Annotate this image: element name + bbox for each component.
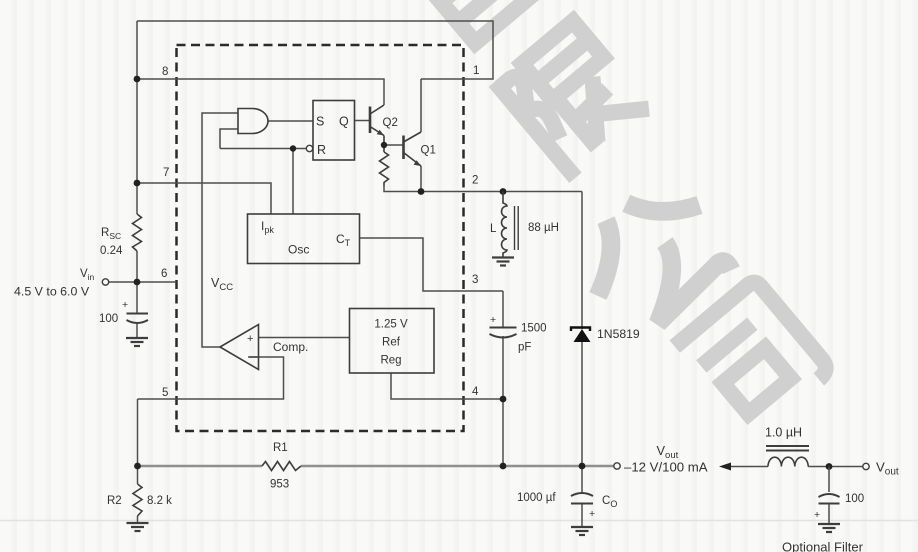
svg-text:R2: R2 [107,495,122,507]
watermark char 司 [675,279,831,436]
ground (R2) [127,523,149,531]
ground (L) [492,258,514,266]
svg-text:6: 6 [161,268,167,280]
svg-text:0.24: 0.24 [100,245,123,257]
transistor Q1 [404,132,422,166]
reference regulator box [350,309,435,374]
wire: top loop to pin 1 [137,21,493,79]
svg-text:8.2 k: 8.2 k [147,495,172,507]
wire: pin5 node down to feedback divider [137,399,139,466]
svg-text:1000 µf: 1000 µf [517,492,556,504]
svg-text:100: 100 [99,313,118,325]
node: pin4 rail junction [500,463,507,470]
svg-text:1500: 1500 [521,323,547,335]
resistor R2 8.2k [133,484,142,516]
svg-text:R: R [317,143,326,157]
node: pin8 junction [134,76,141,83]
svg-text:953: 953 [270,479,289,491]
svg-text:Ipk: Ipk [261,219,274,235]
wire: bottom output rail [138,465,614,467]
svg-text:L: L [490,223,497,235]
terminal Vout (filter) [863,463,869,469]
svg-text:VCC: VCC [211,276,233,293]
svg-text:Osc: Osc [288,243,309,257]
wire: Q1 emitter to pin2 [420,166,422,192]
node: Q2 emitter junction [381,142,387,148]
svg-text:100: 100 [845,493,864,505]
svg-text:1.0 µH: 1.0 µH [765,426,802,440]
watermark char 公 [564,168,745,347]
svg-text:Q1: Q1 [421,145,436,157]
output terminal Vout [614,463,620,469]
wire: timing cap to pin4 node to output rail [502,336,504,466]
svg-text:CT: CT [336,232,351,248]
node: pin7 junction [134,180,141,187]
svg-text:RSC: RSC [101,227,121,241]
svg-text:+: + [814,509,820,521]
wire: oscillator output to AND gate input B and latch R [220,149,293,215]
wire: R2 branch [137,466,139,484]
node: latch R junction [290,145,296,151]
resistor R1 953 [262,462,301,471]
resistor Rsc 0.24 [133,214,142,251]
svg-text:CO: CO [602,495,617,509]
diode 1N5819 [574,329,591,342]
svg-text:2: 2 [472,175,478,187]
inductor L 88uH [502,192,519,258]
wire: filter right [808,466,862,468]
node: diode output junction [579,463,586,470]
wire: reference output to pin 4 [391,373,503,399]
wire: AND output to latch S [268,120,314,122]
watermark char 有 [370,0,544,62]
ground (input cap) [126,338,148,346]
svg-text:8: 8 [162,66,168,78]
resistor: Q1 base pulldown [380,152,389,186]
IC boundary (dashed) [177,45,464,431]
svg-text:4: 4 [472,386,479,398]
wire: left input rail [136,21,138,214]
wire: comparator output to AND gate input A [202,113,238,347]
node: feedback junction [134,463,141,470]
transistor Q2 [370,105,384,145]
node: pin4 junction [500,396,507,403]
wire: CT to pin 3 [360,238,504,291]
ground (CO) [571,527,593,535]
wire: Q2 emitter node to Q1 base [384,144,404,146]
wire: pin 3 down to timing capacitor [502,291,504,327]
Vin terminal [102,279,108,285]
svg-text:+: + [122,299,128,311]
inductor 1.0uH [766,446,809,467]
node: Q1 emitter on pin2 [418,188,425,195]
svg-text:–12 V/100 mA: –12 V/100 mA [624,460,708,475]
wire: pin 8 to Q2 collector [137,79,384,105]
ground (filter cap) [818,524,840,532]
svg-text:Optional Filter: Optional Filter [782,540,864,552]
timing capacitor 1500 pF [490,328,517,338]
svg-text:Q2: Q2 [383,117,398,129]
wire: comparator + input from reference [259,337,350,339]
oscillator box Ipk / Osc / CT [248,214,360,264]
svg-text:pF: pF [518,342,531,354]
svg-text:1.25 V: 1.25 V [374,319,408,331]
watermark [370,0,830,437]
wire: latch Q to Q2 base [355,120,370,122]
svg-text:+: + [247,333,253,345]
node: filter cap junction [826,463,833,470]
svg-text:1: 1 [473,65,479,77]
svg-text:3: 3 [472,274,478,286]
wire: CO branch [581,466,583,492]
svg-text:7: 7 [163,167,169,179]
svg-text:4.5 V to 6.0 V: 4.5 V to 6.0 V [14,285,90,299]
page edge line [0,520,918,522]
svg-text:5: 5 [162,387,168,399]
svg-text:1N5819: 1N5819 [597,327,640,341]
wire: diode branch [581,192,583,330]
node: pin6 junction [134,279,141,286]
comparator [220,325,259,370]
svg-text:+: + [490,314,496,326]
output capacitor CO 1000uF [571,493,593,504]
filter capacitor 100 [828,467,830,493]
wire: pin 2 rail [384,186,582,192]
wire: pin 6 Vin [109,281,177,283]
svg-text:88 µH: 88 µH [528,222,559,234]
svg-text:S: S [316,115,324,129]
optional filter arrow [719,463,731,471]
svg-text:Vin: Vin [80,268,95,282]
svg-text:Vout: Vout [657,443,679,461]
watermark char 限 [495,17,653,178]
wire: pin 5 to comparator inverting input [138,357,284,399]
svg-text:+: + [589,508,595,520]
latch S/R [306,101,354,161]
svg-text:Vout: Vout [876,460,899,478]
AND gate [238,108,268,133]
node: pin2 inductor junction [500,188,507,195]
wire: Q1 collector up [420,79,422,132]
svg-text:Q: Q [339,115,349,129]
wire: filter left [731,466,768,468]
svg-text:Ref: Ref [382,337,401,349]
wire: pin 7 to Ipk [137,183,271,214]
svg-text:R1: R1 [273,442,288,454]
svg-text:Comp.: Comp. [273,340,308,354]
svg-text:Reg: Reg [380,355,401,367]
input capacitor 100uF [127,314,149,324]
